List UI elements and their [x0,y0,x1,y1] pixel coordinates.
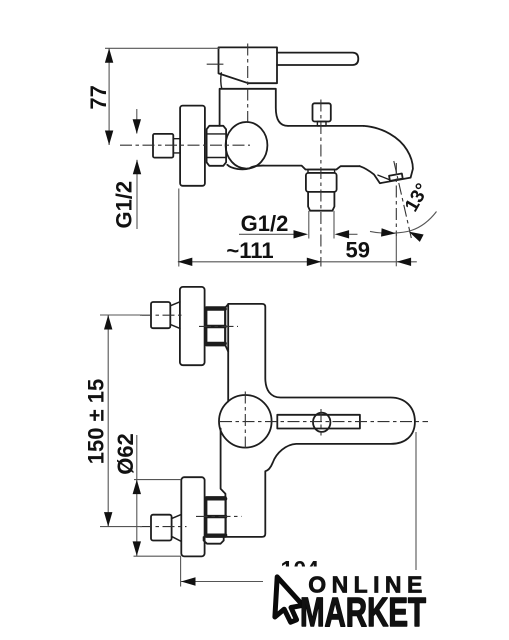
body left edge below circle [221,429,226,498]
outlet extension lines [309,211,334,239]
shower outlet pipe [308,192,334,211]
lever bar [277,53,358,65]
union nut [207,126,227,166]
svg-text:~111: ~111 [226,238,273,263]
svg-text:G1/2: G1/2 [112,181,137,229]
13 degrees angle [370,212,437,234]
arrowhead outlet right [335,230,350,238]
centerlines bottom view [140,315,428,526]
dimension 77 [105,48,220,145]
arrowhead pipe top [133,119,141,134]
bottom pipe axis [140,526,187,528]
arrowhead 77 top [105,48,113,63]
bottom escutcheon [181,477,204,556]
svg-text:G1/2: G1/2 [241,211,289,236]
vertical centerline spout tip [395,163,397,236]
svg-text:150 ± 15: 150 ± 15 [84,379,109,464]
lever bar front [277,415,360,429]
svg-text:Ø62: Ø62 [113,433,138,475]
cap left tick [207,63,224,65]
dome vertical centerline [244,392,246,452]
body outline [227,304,415,537]
shower outlet flange plate [308,170,335,173]
body top edge [288,125,364,127]
logo white box [263,567,436,640]
diverter neck [317,122,326,126]
logo cursor [275,577,303,622]
left pipe neck [173,139,180,153]
handle cap [219,47,278,83]
tip inner line [378,175,389,179]
wall escutcheon [180,106,205,186]
vertical centerline diverter/outlet [320,100,322,267]
arrowhead arc left [381,228,396,237]
dimension ~111 and 59 [178,189,417,267]
bottom pipe flare [172,514,182,541]
arrowhead pipe bottom [133,160,141,175]
cartridge dome circle [219,395,272,448]
top pipe axis [140,314,184,316]
horizontal centerline [120,144,250,146]
top union nut [206,307,225,345]
body boss below bottom nut [204,537,224,544]
diverter front circle [313,413,330,432]
bottom pipe [151,515,172,541]
arrowhead outlet left [294,230,309,238]
dimension 150 +/- 15 [100,315,142,527]
arrowhead 77 bottom [105,131,113,146]
diverter vertical centerline [320,409,322,436]
arrowhead 104 left [181,577,196,585]
svg-text:59: 59 [345,237,369,262]
dimension G1/2 left [136,109,138,229]
shower outlet nut [306,173,337,192]
top pipe flare [170,302,180,329]
bottom union nut [206,497,225,537]
dimension diameter 62 [134,435,182,556]
collar left curve [221,73,222,89]
top escutcheon [180,287,205,365]
arrowhead 150 top [104,315,112,330]
arrowhead 150 bottom [104,512,112,527]
aerator [389,174,403,181]
dimension line G1/2 bottom [239,233,358,235]
arrowhead 59 right [397,258,412,266]
arrowhead 111 left [178,258,193,266]
top pipe [151,302,170,328]
body boss chamfers top [225,304,228,351]
body bottom edge [227,165,359,170]
vertical centerline handle [247,44,249,122]
cartridge body [220,89,288,126]
centerlines, top view [120,44,411,267]
arrowhead 111 right [307,258,322,266]
dimension lines ~104 [181,432,416,587]
tilted 13deg centerline [394,161,412,238]
svg-text:MARKET: MARKET [300,589,426,635]
left outlet pipe [153,134,173,158]
main horizontal centerline [220,421,428,423]
bottom inlet axis [196,515,242,517]
ball joint [226,122,268,169]
diverter knob [313,103,331,121]
spout outer curve and tip [360,126,413,183]
top inlet axis [199,325,238,327]
arrowhead 62 top [133,480,141,495]
arrowhead 62 bottom [133,541,141,556]
extension line over box top [415,567,417,571]
arrowhead arc right [407,228,424,242]
svg-text:77: 77 [86,85,111,109]
